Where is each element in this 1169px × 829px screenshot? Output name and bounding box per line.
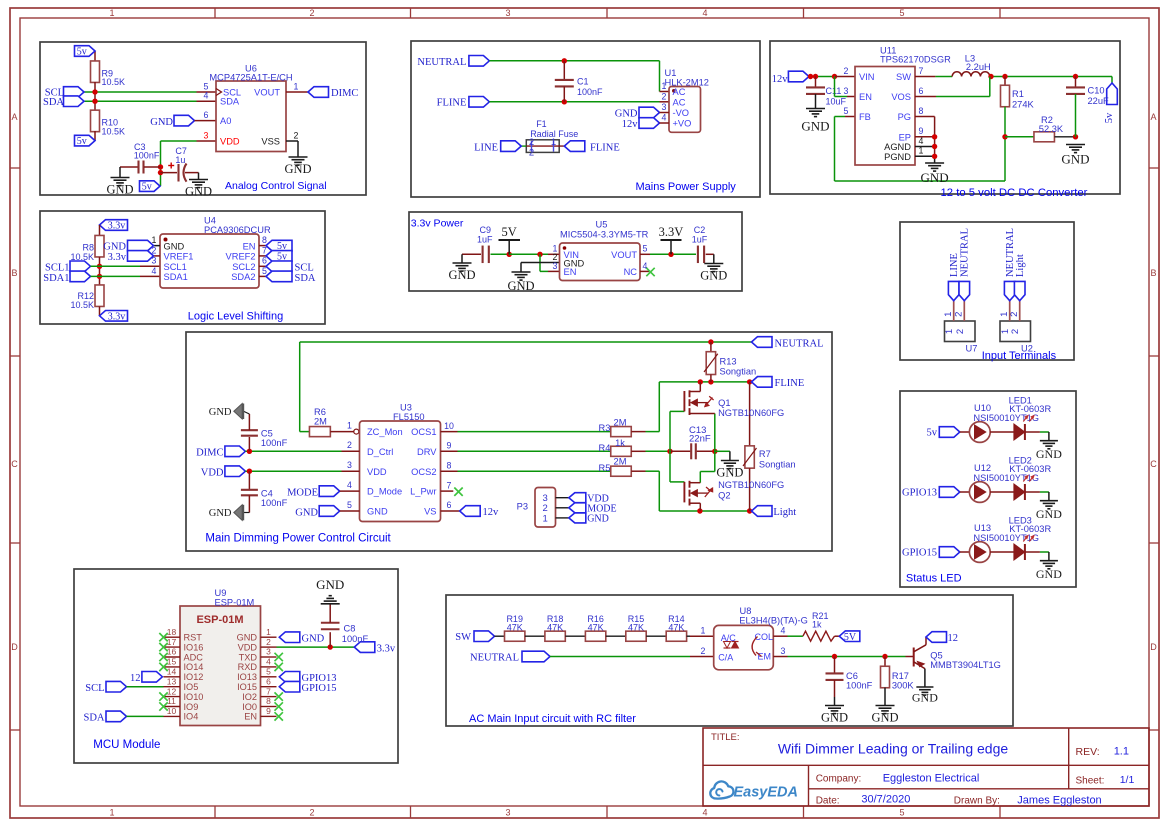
svg-text:GND: GND <box>209 508 232 519</box>
svg-text:R3: R3 <box>599 423 611 433</box>
svg-text:2: 2 <box>294 130 299 140</box>
svg-text:GPIO15: GPIO15 <box>902 548 937 559</box>
svg-text:1k: 1k <box>615 438 625 448</box>
svg-text:VDD: VDD <box>367 467 387 477</box>
svg-text:SDA: SDA <box>83 713 104 724</box>
svg-text:C11: C11 <box>826 86 842 96</box>
svg-text:IO5: IO5 <box>184 682 199 692</box>
svg-text:6: 6 <box>204 110 209 120</box>
svg-text:1: 1 <box>944 329 955 334</box>
svg-text:C8: C8 <box>344 623 356 633</box>
svg-text:RXD: RXD <box>238 662 258 672</box>
svg-text:GND: GND <box>185 185 212 199</box>
svg-text:100nF: 100nF <box>261 438 288 448</box>
svg-text:IO13: IO13 <box>237 672 257 682</box>
svg-text:4: 4 <box>702 8 707 18</box>
svg-text:3.3v Power: 3.3v Power <box>411 218 464 230</box>
svg-text:PCA9306DCUR: PCA9306DCUR <box>204 225 271 235</box>
svg-text:1uF: 1uF <box>477 235 493 245</box>
svg-text:GND: GND <box>209 407 232 418</box>
svg-text:GND: GND <box>237 633 258 643</box>
svg-text:SDA1: SDA1 <box>43 273 69 284</box>
svg-text:SCL1: SCL1 <box>164 262 187 272</box>
svg-text:4: 4 <box>347 480 352 490</box>
svg-text:2: 2 <box>529 137 534 148</box>
svg-text:1u: 1u <box>175 155 185 165</box>
svg-text:3.3v: 3.3v <box>108 311 126 322</box>
svg-text:8: 8 <box>262 235 267 245</box>
svg-text:U12: U12 <box>974 463 991 473</box>
svg-text:OCS1: OCS1 <box>411 427 436 437</box>
svg-text:EN: EN <box>859 92 872 102</box>
svg-text:274K: 274K <box>1012 100 1035 110</box>
svg-text:SDA: SDA <box>43 97 64 108</box>
svg-text:GND: GND <box>1036 447 1062 461</box>
svg-text:300K: 300K <box>892 680 915 690</box>
svg-text:8: 8 <box>266 696 271 706</box>
svg-text:5v: 5v <box>927 428 938 439</box>
svg-text:EL3H4(B)(TA)-G: EL3H4(B)(TA)-G <box>739 616 808 626</box>
svg-text:NEUTRAL: NEUTRAL <box>417 57 466 68</box>
svg-text:8: 8 <box>919 106 924 116</box>
svg-text:100nF: 100nF <box>846 680 873 690</box>
svg-text:47K: 47K <box>507 623 523 633</box>
svg-text:FLINE: FLINE <box>775 378 805 389</box>
svg-text:SDA: SDA <box>220 97 240 107</box>
svg-text:1: 1 <box>943 312 954 317</box>
svg-text:DRV: DRV <box>417 447 437 457</box>
svg-text:PG: PG <box>898 112 911 122</box>
svg-text:DIMC: DIMC <box>331 88 358 99</box>
svg-text:AC: AC <box>673 98 686 108</box>
svg-text:Songtian: Songtian <box>720 367 757 377</box>
svg-text:3: 3 <box>204 130 209 140</box>
svg-text:SDA2: SDA2 <box>231 272 255 282</box>
svg-text:MMBT3904LT1G: MMBT3904LT1G <box>930 660 1001 670</box>
svg-text:14: 14 <box>167 667 177 677</box>
svg-text:3: 3 <box>505 808 510 818</box>
svg-text:2: 2 <box>844 66 849 76</box>
svg-text:R7: R7 <box>759 449 771 459</box>
svg-text:2: 2 <box>266 637 271 647</box>
svg-text:KT-0603R: KT-0603R <box>1009 464 1051 474</box>
svg-text:5: 5 <box>844 106 849 116</box>
svg-text:U10: U10 <box>974 403 991 413</box>
svg-text:EasyEDA: EasyEDA <box>734 785 798 801</box>
svg-text:5v: 5v <box>77 136 87 147</box>
svg-text:GND: GND <box>615 109 638 120</box>
svg-text:+VO: +VO <box>673 119 692 129</box>
svg-text:4: 4 <box>204 91 209 101</box>
svg-text:C: C <box>11 459 18 469</box>
svg-text:Drawn By:: Drawn By: <box>954 795 1000 806</box>
svg-text:6: 6 <box>447 500 452 510</box>
svg-text:3.3v: 3.3v <box>108 252 127 263</box>
svg-text:3: 3 <box>553 261 558 271</box>
svg-text:FL5150: FL5150 <box>393 412 425 422</box>
svg-text:IO12: IO12 <box>184 672 204 682</box>
svg-text:7: 7 <box>266 686 271 696</box>
svg-text:1: 1 <box>662 81 667 91</box>
svg-text:5: 5 <box>266 667 271 677</box>
svg-text:100nF: 100nF <box>577 87 603 97</box>
svg-text:EP: EP <box>899 132 911 142</box>
svg-text:VIN: VIN <box>859 72 875 82</box>
svg-text:6: 6 <box>919 86 924 96</box>
svg-text:2M: 2M <box>614 457 627 467</box>
svg-text:Sheet:: Sheet: <box>1076 776 1105 787</box>
svg-text:SW: SW <box>455 632 471 643</box>
svg-text:10: 10 <box>167 706 177 716</box>
svg-text:GND: GND <box>871 711 898 725</box>
svg-text:5: 5 <box>899 808 904 818</box>
svg-text:2: 2 <box>701 646 706 656</box>
svg-text:IO10: IO10 <box>184 692 204 702</box>
svg-text:LINE: LINE <box>474 142 498 153</box>
svg-text:47K: 47K <box>588 623 604 633</box>
svg-text:NSI50010YT1G: NSI50010YT1G <box>973 473 1039 483</box>
svg-text:9: 9 <box>447 441 452 451</box>
svg-text:3.3v: 3.3v <box>377 643 396 654</box>
svg-text:TXD: TXD <box>239 652 258 662</box>
svg-text:9: 9 <box>266 706 271 716</box>
svg-text:C: C <box>1150 459 1157 469</box>
svg-text:5: 5 <box>347 500 352 510</box>
svg-text:IO14: IO14 <box>184 662 204 672</box>
svg-text:GND: GND <box>716 466 743 480</box>
svg-text:AGND: AGND <box>884 142 911 152</box>
svg-text:2: 2 <box>1010 329 1021 334</box>
svg-text:GND: GND <box>302 634 325 645</box>
svg-text:KT-0603R: KT-0603R <box>1009 404 1051 414</box>
svg-text:5: 5 <box>899 8 904 18</box>
svg-text:VDD: VDD <box>238 642 258 652</box>
svg-text:SCL: SCL <box>295 263 314 274</box>
svg-text:VREF2: VREF2 <box>226 252 256 262</box>
svg-text:Light: Light <box>1015 254 1026 277</box>
svg-text:VOUT: VOUT <box>254 87 280 97</box>
svg-text:GND: GND <box>587 514 609 525</box>
svg-text:Songtian: Songtian <box>759 459 796 469</box>
svg-text:MCP4725A1T-E/CH: MCP4725A1T-E/CH <box>209 73 292 83</box>
svg-text:C10: C10 <box>1088 86 1105 96</box>
svg-text:12: 12 <box>948 633 959 644</box>
svg-text:IO2: IO2 <box>242 692 257 702</box>
svg-text:OCS2: OCS2 <box>411 467 436 477</box>
svg-text:L_Pwr: L_Pwr <box>410 487 436 497</box>
svg-text:2: 2 <box>309 808 314 818</box>
svg-text:Radial Fuse: Radial Fuse <box>530 129 578 139</box>
svg-text:GND: GND <box>801 119 829 134</box>
svg-text:GND: GND <box>1036 567 1062 581</box>
svg-text:R5: R5 <box>599 463 611 473</box>
svg-text:-VO: -VO <box>673 108 690 118</box>
svg-text:C4: C4 <box>261 488 273 498</box>
svg-text:NSI50010YT1G: NSI50010YT1G <box>973 413 1039 423</box>
svg-text:VDD: VDD <box>201 467 224 478</box>
svg-text:U5: U5 <box>596 220 608 230</box>
svg-text:15: 15 <box>167 657 177 667</box>
svg-text:4: 4 <box>266 657 271 667</box>
svg-text:1uF: 1uF <box>692 235 708 245</box>
svg-text:Q1: Q1 <box>718 398 730 408</box>
svg-text:P3: P3 <box>517 501 528 511</box>
svg-text:C2: C2 <box>694 225 706 235</box>
svg-text:2: 2 <box>662 91 667 101</box>
svg-text:GND: GND <box>150 117 173 128</box>
svg-text:NGTB10N60FG: NGTB10N60FG <box>718 480 784 490</box>
svg-text:B: B <box>1150 268 1156 278</box>
svg-text:ESP-01M: ESP-01M <box>215 597 255 607</box>
svg-text:AC Main Input circuit with RC: AC Main Input circuit with RC filter <box>469 713 636 725</box>
svg-text:7: 7 <box>447 480 452 490</box>
svg-text:Main Dimming Power Control Cir: Main Dimming Power Control Circuit <box>205 532 391 544</box>
svg-text:EN: EN <box>564 267 577 277</box>
svg-text:2M: 2M <box>614 418 627 428</box>
svg-text:Analog Control Signal: Analog Control Signal <box>225 180 327 192</box>
svg-text:MODE: MODE <box>287 487 318 498</box>
svg-text:D: D <box>11 642 18 652</box>
svg-text:22uF: 22uF <box>1088 96 1110 106</box>
svg-text:VSS: VSS <box>261 136 280 146</box>
svg-text:EN: EN <box>244 712 257 722</box>
svg-text:52.3K: 52.3K <box>1039 124 1064 134</box>
svg-text:VREF1: VREF1 <box>164 252 194 262</box>
svg-text:U3: U3 <box>400 403 412 413</box>
svg-text:13: 13 <box>167 676 177 686</box>
svg-text:C1: C1 <box>577 77 589 87</box>
svg-text:10.5K: 10.5K <box>102 126 126 136</box>
svg-text:47K: 47K <box>628 623 644 633</box>
svg-text:Logic Level Shifting: Logic Level Shifting <box>188 311 283 323</box>
svg-text:PGND: PGND <box>884 152 911 162</box>
svg-text:17: 17 <box>167 637 177 647</box>
svg-text:LINE: LINE <box>949 253 960 277</box>
svg-text:NEUTRAL: NEUTRAL <box>960 228 971 277</box>
svg-text:R1: R1 <box>1012 89 1024 99</box>
svg-text:James Eggleston: James Eggleston <box>1017 794 1101 806</box>
svg-text:GND: GND <box>164 241 185 251</box>
svg-text:NC: NC <box>624 267 638 277</box>
svg-text:7: 7 <box>919 66 924 76</box>
svg-text:U13: U13 <box>974 523 991 533</box>
svg-text:100nF: 100nF <box>342 634 369 644</box>
svg-text:IO9: IO9 <box>184 702 199 712</box>
svg-text:REV:: REV: <box>1076 746 1100 758</box>
svg-text:D_Ctrl: D_Ctrl <box>367 447 393 457</box>
svg-text:1: 1 <box>266 627 271 637</box>
svg-text:Status LED: Status LED <box>906 573 962 585</box>
svg-text:3.3v: 3.3v <box>108 221 126 232</box>
svg-text:EN: EN <box>243 241 256 251</box>
svg-text:10.5K: 10.5K <box>102 77 126 87</box>
svg-text:D: D <box>1150 642 1157 652</box>
svg-text:EM: EM <box>758 652 772 662</box>
svg-text:2: 2 <box>347 440 352 450</box>
svg-text:U9: U9 <box>215 588 227 598</box>
svg-text:3: 3 <box>781 646 786 656</box>
svg-text:1: 1 <box>294 81 299 91</box>
svg-text:VOS: VOS <box>891 92 911 102</box>
svg-text:C9: C9 <box>480 225 492 235</box>
svg-text:F1: F1 <box>536 119 547 129</box>
svg-text:2.2uH: 2.2uH <box>966 62 991 72</box>
svg-text:12v: 12v <box>622 119 639 130</box>
svg-text:2: 2 <box>309 8 314 18</box>
svg-text:SDA: SDA <box>295 273 316 284</box>
svg-text:Input Terminals: Input Terminals <box>982 350 1057 362</box>
svg-text:3: 3 <box>266 647 271 657</box>
svg-text:100nF: 100nF <box>134 150 160 160</box>
svg-text:A: A <box>1150 112 1156 122</box>
svg-text:1: 1 <box>347 420 352 430</box>
svg-text:C/A: C/A <box>718 653 733 663</box>
svg-text:FB: FB <box>859 112 871 122</box>
svg-text:GND: GND <box>284 162 311 176</box>
svg-text:12v: 12v <box>483 507 500 518</box>
svg-text:FLINE: FLINE <box>590 142 620 153</box>
svg-text:12: 12 <box>167 686 177 696</box>
svg-text:GND: GND <box>921 170 949 185</box>
svg-text:3: 3 <box>152 256 157 266</box>
svg-text:4: 4 <box>152 266 157 276</box>
svg-text:2: 2 <box>529 148 534 159</box>
svg-text:C5: C5 <box>261 428 273 438</box>
svg-text:GND: GND <box>448 268 475 282</box>
svg-text:DIMC: DIMC <box>196 448 223 459</box>
svg-text:ADC: ADC <box>184 652 204 662</box>
svg-text:U7: U7 <box>966 343 978 353</box>
svg-text:4: 4 <box>702 808 707 818</box>
svg-text:1/1: 1/1 <box>1120 774 1135 786</box>
svg-text:R13: R13 <box>720 356 737 366</box>
svg-text:12 to 5 volt DC DC Converter: 12 to 5 volt DC DC Converter <box>941 187 1088 199</box>
svg-text:FLINE: FLINE <box>437 98 467 109</box>
svg-text:3.3V: 3.3V <box>659 225 684 239</box>
svg-text:GND: GND <box>106 183 133 197</box>
svg-text:100nF: 100nF <box>261 498 288 508</box>
svg-text:16: 16 <box>167 647 177 657</box>
svg-text:GPIO13: GPIO13 <box>902 488 937 499</box>
svg-text:11: 11 <box>167 696 176 706</box>
svg-text:NEUTRAL: NEUTRAL <box>470 652 519 663</box>
svg-text:KT-0603R: KT-0603R <box>1009 524 1051 534</box>
svg-text:1: 1 <box>551 137 556 148</box>
svg-text:TITLE:: TITLE: <box>711 732 740 743</box>
svg-text:SDA1: SDA1 <box>164 272 188 282</box>
svg-text:VOUT: VOUT <box>611 250 637 260</box>
svg-text:NEUTRAL: NEUTRAL <box>775 338 824 349</box>
svg-text:3: 3 <box>844 86 849 96</box>
svg-text:Q2: Q2 <box>718 490 730 500</box>
svg-text:10: 10 <box>444 421 454 431</box>
svg-text:8: 8 <box>447 460 452 470</box>
svg-text:SCL: SCL <box>85 683 104 694</box>
svg-text:NSI50010YT1G: NSI50010YT1G <box>973 533 1039 543</box>
svg-text:R6: R6 <box>314 407 326 417</box>
svg-text:IO4: IO4 <box>184 712 199 722</box>
svg-text:GND: GND <box>821 711 848 725</box>
svg-text:MIC5504-3.3YM5-TR: MIC5504-3.3YM5-TR <box>560 230 649 240</box>
svg-text:B: B <box>11 268 17 278</box>
svg-text:GND: GND <box>507 279 534 293</box>
svg-text:SCL1: SCL1 <box>45 263 70 274</box>
svg-text:12v: 12v <box>772 74 789 85</box>
svg-text:Light: Light <box>773 507 796 518</box>
svg-text:5v: 5v <box>77 47 87 58</box>
svg-text:VDD: VDD <box>220 136 240 146</box>
svg-text:HLK-2M12: HLK-2M12 <box>665 77 709 87</box>
svg-text:GND: GND <box>295 507 318 518</box>
svg-text:IO0: IO0 <box>242 702 257 712</box>
svg-text:3: 3 <box>347 460 352 470</box>
svg-text:A: A <box>11 112 17 122</box>
svg-text:Eggleston Electrical: Eggleston Electrical <box>883 772 980 784</box>
svg-text:5v: 5v <box>1104 112 1115 123</box>
svg-text:ESP-01M: ESP-01M <box>196 614 243 626</box>
svg-text:A0: A0 <box>220 116 231 126</box>
svg-text:AC: AC <box>673 87 686 97</box>
svg-text:IO15: IO15 <box>237 682 257 692</box>
svg-text:U8: U8 <box>740 606 752 616</box>
svg-text:1: 1 <box>109 8 114 18</box>
svg-text:10.5K: 10.5K <box>70 300 94 310</box>
svg-text:MCU Module: MCU Module <box>93 739 160 751</box>
svg-text:Company:: Company: <box>816 773 862 784</box>
svg-text:5V: 5V <box>844 632 857 643</box>
svg-text:5: 5 <box>643 244 648 254</box>
svg-text:2M: 2M <box>314 416 327 426</box>
svg-text:1: 1 <box>109 808 114 818</box>
svg-text:NGTB10N60FG: NGTB10N60FG <box>718 408 784 418</box>
svg-text:GND: GND <box>700 269 727 283</box>
svg-text:2: 2 <box>1009 312 1020 317</box>
svg-text:GND: GND <box>1036 507 1062 521</box>
svg-text:4: 4 <box>781 626 786 636</box>
svg-text:5v: 5v <box>142 182 152 193</box>
svg-text:18: 18 <box>167 627 177 637</box>
svg-text:6: 6 <box>266 676 271 686</box>
svg-text:9: 9 <box>919 126 924 136</box>
svg-text:GND: GND <box>912 691 938 705</box>
svg-text:Date:: Date: <box>816 795 840 806</box>
svg-text:Mains Power Supply: Mains Power Supply <box>636 181 737 193</box>
svg-text:12: 12 <box>130 673 141 684</box>
svg-text:IO16: IO16 <box>184 642 204 652</box>
svg-text:GND: GND <box>367 507 388 517</box>
svg-text:VS: VS <box>424 507 436 517</box>
svg-text:ZC_Mon: ZC_Mon <box>367 427 403 437</box>
svg-text:3: 3 <box>505 8 510 18</box>
svg-text:2: 2 <box>954 312 965 317</box>
svg-text:1: 1 <box>543 513 548 524</box>
svg-text:47K: 47K <box>547 623 563 633</box>
svg-text:TPS62170DSGR: TPS62170DSGR <box>880 55 951 65</box>
svg-text:1.1: 1.1 <box>1114 746 1129 758</box>
svg-text:GND: GND <box>316 577 344 592</box>
svg-text:22nF: 22nF <box>689 433 711 444</box>
svg-text:5V: 5V <box>502 225 517 239</box>
svg-text:30/7/2020: 30/7/2020 <box>861 794 910 806</box>
svg-text:47K: 47K <box>668 623 684 633</box>
svg-text:RST: RST <box>184 633 203 643</box>
svg-text:1: 1 <box>701 626 706 636</box>
svg-text:GPIO15: GPIO15 <box>302 683 337 694</box>
svg-text:R4: R4 <box>599 443 611 453</box>
svg-text:4: 4 <box>662 112 667 122</box>
svg-text:Wifi Dimmer Leading or Trailin: Wifi Dimmer Leading or Trailing edge <box>778 741 1009 757</box>
svg-text:1k: 1k <box>812 620 822 630</box>
